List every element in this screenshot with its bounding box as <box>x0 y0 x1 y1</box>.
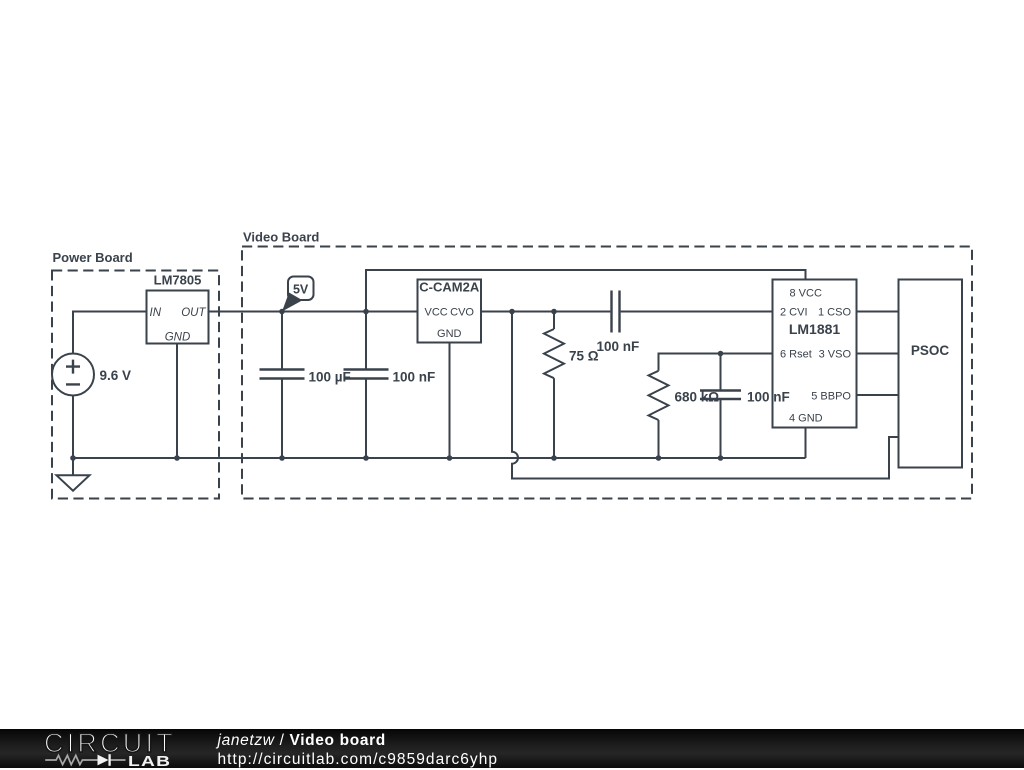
svg-text:VCC: VCC <box>425 307 448 319</box>
svg-text:LM1881: LM1881 <box>789 321 841 337</box>
svg-text:GND: GND <box>165 332 191 344</box>
junction dot Rset C4 <box>718 351 724 357</box>
wire video tap down with hop over ground rail <box>512 312 899 479</box>
junction dot gnd X1 <box>447 455 453 461</box>
Video Board boundary <box>242 247 972 499</box>
regulator U3 LM7805 box <box>147 291 209 344</box>
svg-text:C-CAM2A: C-CAM2A <box>419 280 480 295</box>
svg-text:680 kΩ: 680 kΩ <box>675 390 720 405</box>
junction dot 5V rail at C1 <box>279 309 285 315</box>
wire C4 bottom stub <box>720 399 722 458</box>
junction dot gnd U3 <box>174 455 180 461</box>
svg-text:100 µF: 100 µF <box>309 370 351 385</box>
svg-text:8 VCC: 8 VCC <box>790 288 822 300</box>
wire U3 GND down <box>176 344 178 459</box>
svg-text:1 CSO: 1 CSO <box>818 307 851 319</box>
junction dot R1 top <box>551 309 557 315</box>
ground symbol <box>57 458 90 491</box>
wire ground rail <box>73 457 806 459</box>
svg-text:Video Board: Video Board <box>243 230 319 245</box>
wire V1 bottom to ground rail <box>72 396 74 459</box>
logo CIRCUIT text <box>44 728 176 759</box>
footer bar <box>0 729 1024 768</box>
junction dot gnd R1 <box>551 455 557 461</box>
svg-text:100 nF: 100 nF <box>597 339 640 354</box>
svg-text:100 nF: 100 nF <box>393 370 436 385</box>
wire C3 right plate to U1 CVI <box>621 311 773 313</box>
wire 5V node up and top rail to U1 pin8 <box>366 270 806 312</box>
svg-text:100 nF: 100 nF <box>747 390 790 405</box>
wire U1 Rset to R2 <box>659 354 773 371</box>
svg-text:75 Ω: 75 Ω <box>569 349 599 364</box>
wire C2 bottom stub <box>365 379 367 458</box>
junction dot 5V rail at C2 <box>363 309 369 315</box>
wire R1 bottom stub <box>553 378 555 458</box>
svg-text:2 CVI: 2 CVI <box>780 307 808 319</box>
junction dot gnd C1 <box>279 455 285 461</box>
resistor R1 75 ohm <box>544 329 564 378</box>
resistor R2 680k <box>649 371 669 420</box>
capacitor C4 100nF plates <box>700 391 741 400</box>
svg-text:9.6 V: 9.6 V <box>100 368 132 383</box>
svg-text:CVO: CVO <box>450 307 474 319</box>
logo squiggle and LAB <box>44 750 174 770</box>
junction dot gnd C2 <box>363 455 369 461</box>
net flag 5V bubble <box>288 277 314 301</box>
wire C1 top stub <box>281 312 283 370</box>
wire U1 CSO to PSOC <box>857 311 899 313</box>
svg-text:IN: IN <box>150 307 162 319</box>
wire R1 top stub <box>553 312 555 330</box>
Power Board boundary <box>52 271 219 499</box>
wire U1 GND pin4 down <box>805 428 807 459</box>
capacitor C1 100uF plates <box>260 370 305 379</box>
wire V1 top to U3 IN <box>73 312 147 354</box>
wire R2 bottom stub <box>658 420 660 458</box>
svg-text:LM7805: LM7805 <box>154 273 202 288</box>
subcircuit X2 PSOC box <box>899 280 963 468</box>
svg-text:GND: GND <box>437 328 462 340</box>
wire C1 bottom stub <box>281 379 283 458</box>
wire U1 BBPO to PSOC <box>857 394 899 396</box>
wire X1 CVO to C3 left plate <box>481 311 610 313</box>
footer url line <box>218 751 499 769</box>
svg-text:OUT: OUT <box>181 307 206 319</box>
junction dot gnd R2 <box>656 455 662 461</box>
wire C2 top stub <box>365 312 367 370</box>
wire U1 VSO to PSOC <box>857 353 899 355</box>
svg-text:5 BBPO: 5 BBPO <box>811 391 851 403</box>
net flag 5V tail <box>282 293 303 312</box>
IC U1 LM1881 box <box>773 280 857 428</box>
svg-text:3 VSO: 3 VSO <box>819 349 852 361</box>
junction dot video tap <box>509 309 515 315</box>
wire C4 top stub <box>720 354 722 391</box>
svg-text:5V: 5V <box>293 283 309 297</box>
capacitor C3 100nF plates <box>612 291 620 333</box>
footer title line <box>218 732 386 750</box>
junction dot gnd C4 <box>718 455 724 461</box>
capacitor C2 100nF plates <box>344 370 389 379</box>
voltage source V1 <box>52 354 94 396</box>
svg-text:4 GND: 4 GND <box>789 413 823 425</box>
svg-text:PSOC: PSOC <box>911 343 950 358</box>
subcircuit X1 C-CAM2A box <box>418 280 482 343</box>
wire U3 OUT to X1 VCC rail <box>209 311 418 313</box>
svg-text:6 Rset: 6 Rset <box>780 349 812 361</box>
svg-text:Power Board: Power Board <box>53 250 133 265</box>
junction dot gnd V1 <box>70 455 76 461</box>
wire X1 GND down <box>449 343 451 459</box>
